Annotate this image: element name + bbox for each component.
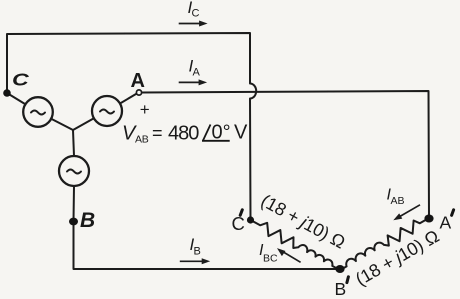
svg-text:C: C bbox=[192, 8, 200, 20]
svg-text:B: B bbox=[80, 209, 95, 232]
svg-text:V: V bbox=[234, 122, 248, 144]
svg-text:BC: BC bbox=[263, 253, 278, 265]
svg-text:A: A bbox=[193, 66, 201, 78]
svg-text:C: C bbox=[232, 213, 245, 234]
svg-text:AB: AB bbox=[391, 195, 405, 207]
svg-text:=: = bbox=[152, 123, 163, 143]
svg-text:AB: AB bbox=[135, 134, 149, 146]
svg-text:+: + bbox=[140, 100, 150, 119]
svg-text:C: C bbox=[12, 70, 30, 90]
svg-text:480: 480 bbox=[168, 123, 199, 145]
svg-text:A: A bbox=[131, 70, 145, 92]
svg-text:B: B bbox=[194, 246, 201, 258]
svg-text:B: B bbox=[335, 279, 347, 299]
svg-text:A: A bbox=[440, 213, 452, 233]
